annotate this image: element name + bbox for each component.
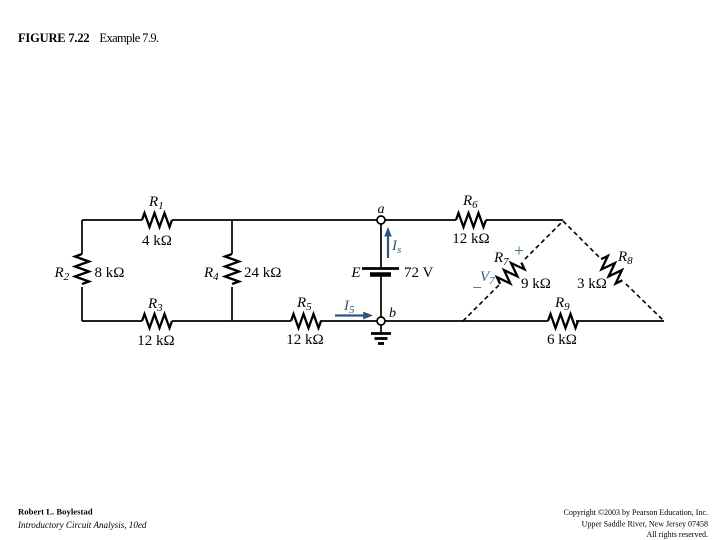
resistor R3: [137, 296, 174, 349]
svg-text:−: −: [472, 278, 482, 297]
svg-text:12 kΩ: 12 kΩ: [137, 333, 174, 349]
ground: [371, 325, 391, 344]
svg-text:72 V: 72 V: [404, 265, 433, 281]
svg-text:R5: R5: [296, 295, 312, 313]
svg-text:Introductory Circuit Analysis,: Introductory Circuit Analysis, 10ed: [17, 520, 147, 530]
resistor R7: [493, 250, 551, 292]
svg-text:R7: R7: [493, 250, 509, 268]
resistor R5: [286, 295, 323, 348]
wire battery branch: [380, 224, 382, 317]
wire bottom rail: [82, 320, 664, 322]
svg-text:R4: R4: [203, 265, 219, 283]
svg-text:R9: R9: [554, 295, 570, 313]
svg-text:Copyright ©2003 by Pearson Edu: Copyright ©2003 by Pearson Education, In…: [564, 508, 709, 517]
svg-text:24 kΩ: 24 kΩ: [244, 265, 281, 281]
node a: [377, 202, 385, 224]
resistor R8: [577, 249, 633, 292]
wire top rail: [82, 219, 563, 221]
battery E: [350, 265, 433, 281]
svg-text:R8: R8: [617, 249, 633, 267]
svg-text:V7: V7: [480, 269, 495, 287]
svg-text:12 kΩ: 12 kΩ: [286, 332, 323, 348]
wire middle rail: [231, 220, 233, 321]
svg-text:FIGURE 7.22Example 7.9.: FIGURE 7.22Example 7.9.: [18, 31, 159, 45]
svg-text:Is: Is: [391, 238, 401, 256]
svg-text:R6: R6: [462, 193, 478, 211]
svg-text:R1: R1: [148, 194, 164, 212]
svg-text:8 kΩ: 8 kΩ: [95, 265, 125, 281]
wire dashed diagonal right: [563, 221, 664, 321]
current arrow Is: [384, 227, 401, 258]
svg-text:12 kΩ: 12 kΩ: [452, 231, 489, 247]
resistor R1: [142, 194, 172, 249]
resistor R6: [452, 193, 489, 247]
svg-text:a: a: [378, 202, 385, 217]
svg-text:E: E: [350, 265, 360, 281]
node b: [377, 306, 396, 325]
resistor R9: [547, 295, 578, 348]
svg-text:Upper Saddle River, New Jersey: Upper Saddle River, New Jersey 07458: [582, 520, 708, 529]
wire left rail: [81, 220, 83, 321]
svg-text:9 kΩ: 9 kΩ: [521, 276, 551, 292]
wire dashed diagonal left: [463, 221, 563, 321]
svg-text:+: +: [514, 241, 524, 260]
svg-text:b: b: [389, 306, 396, 321]
svg-text:4 kΩ: 4 kΩ: [142, 233, 172, 249]
svg-text:All rights reserved.: All rights reserved.: [646, 530, 708, 539]
svg-text:3 kΩ: 3 kΩ: [577, 276, 607, 292]
svg-text:R3: R3: [147, 296, 163, 314]
svg-text:R2: R2: [54, 265, 70, 283]
svg-text:Robert L. Boylestad: Robert L. Boylestad: [18, 507, 93, 517]
resistor R2: [54, 254, 125, 284]
svg-text:6 kΩ: 6 kΩ: [547, 332, 577, 348]
current arrow I5: [335, 298, 373, 319]
resistor R4: [203, 254, 281, 284]
svg-text:I5: I5: [343, 298, 355, 316]
